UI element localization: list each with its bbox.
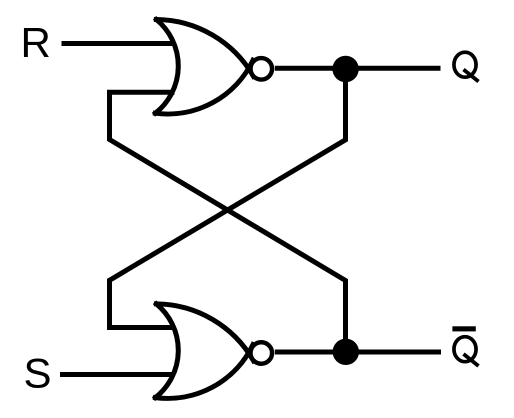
NOR gate U2 bottom curve <box>155 345 253 399</box>
label Q (drawn as ellipse + tail slash) <box>454 52 479 81</box>
NOR gate U2 back concave arc <box>155 304 178 398</box>
NOR gate U2 top curve <box>156 304 253 361</box>
svg-text:S: S <box>24 350 52 397</box>
U1 output inversion bubble <box>251 58 273 80</box>
NOR gate U1 back concave arc <box>155 20 178 114</box>
NOR gate U1 top curve <box>156 20 253 77</box>
wire S input to U2 <box>60 372 172 377</box>
wire net Q feedback to U2 upper input <box>110 71 346 328</box>
wire U2 output to Qbar <box>275 350 441 355</box>
wire R input to U1 <box>62 41 173 46</box>
node Qbar junction <box>333 339 359 365</box>
svg-text:R: R <box>21 19 51 66</box>
wire net Qbar feedback to U1 lower input <box>110 92 346 349</box>
Qbar overline bar <box>452 326 475 331</box>
wire U1 output to Q <box>275 66 441 71</box>
NOR gate U1 bottom curve <box>155 60 253 114</box>
node Q junction <box>332 56 358 82</box>
U2 output inversion bubble <box>251 342 273 364</box>
label Qbar (drawn as ellipse + tail slash) <box>454 337 479 366</box>
